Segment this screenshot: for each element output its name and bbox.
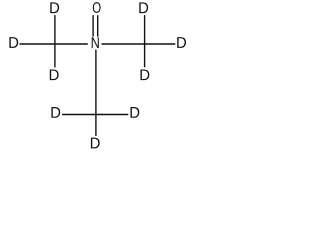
- atom D top-left (deuterium): [50, 2, 59, 13]
- bond bottom carbon to mid-left and mid-right D (horizontal): [62, 114, 128, 116]
- double bond N=O line 2: [97, 15, 99, 36]
- atom N (central nitrogen): [92, 37, 99, 48]
- bond N to bottom carbon (vertical): [95, 50, 97, 136]
- atom D mid-right (deuterium): [130, 107, 139, 118]
- atom D mid-left (deuterium): [51, 107, 60, 118]
- atom D bottom-right (deuterium): [140, 69, 149, 80]
- atom D top-right (deuterium): [139, 2, 148, 13]
- bond N to right carbon (horizontal): [102, 43, 176, 45]
- atom D bottom-left (deuterium): [50, 69, 59, 80]
- bond right carbon to top-right and bottom-right D (vertical): [144, 15, 146, 67]
- bond N to left carbon (horizontal): [20, 43, 88, 45]
- atom D far-right (deuterium): [177, 37, 186, 48]
- atom O of N-oxide: [93, 2, 101, 13]
- double bond N=O line 1: [92, 15, 94, 36]
- atom D far-left (deuterium): [9, 37, 18, 48]
- bond left carbon to top-left and bottom-left D (vertical): [54, 15, 56, 67]
- atom D bottom (deuterium): [91, 138, 100, 149]
